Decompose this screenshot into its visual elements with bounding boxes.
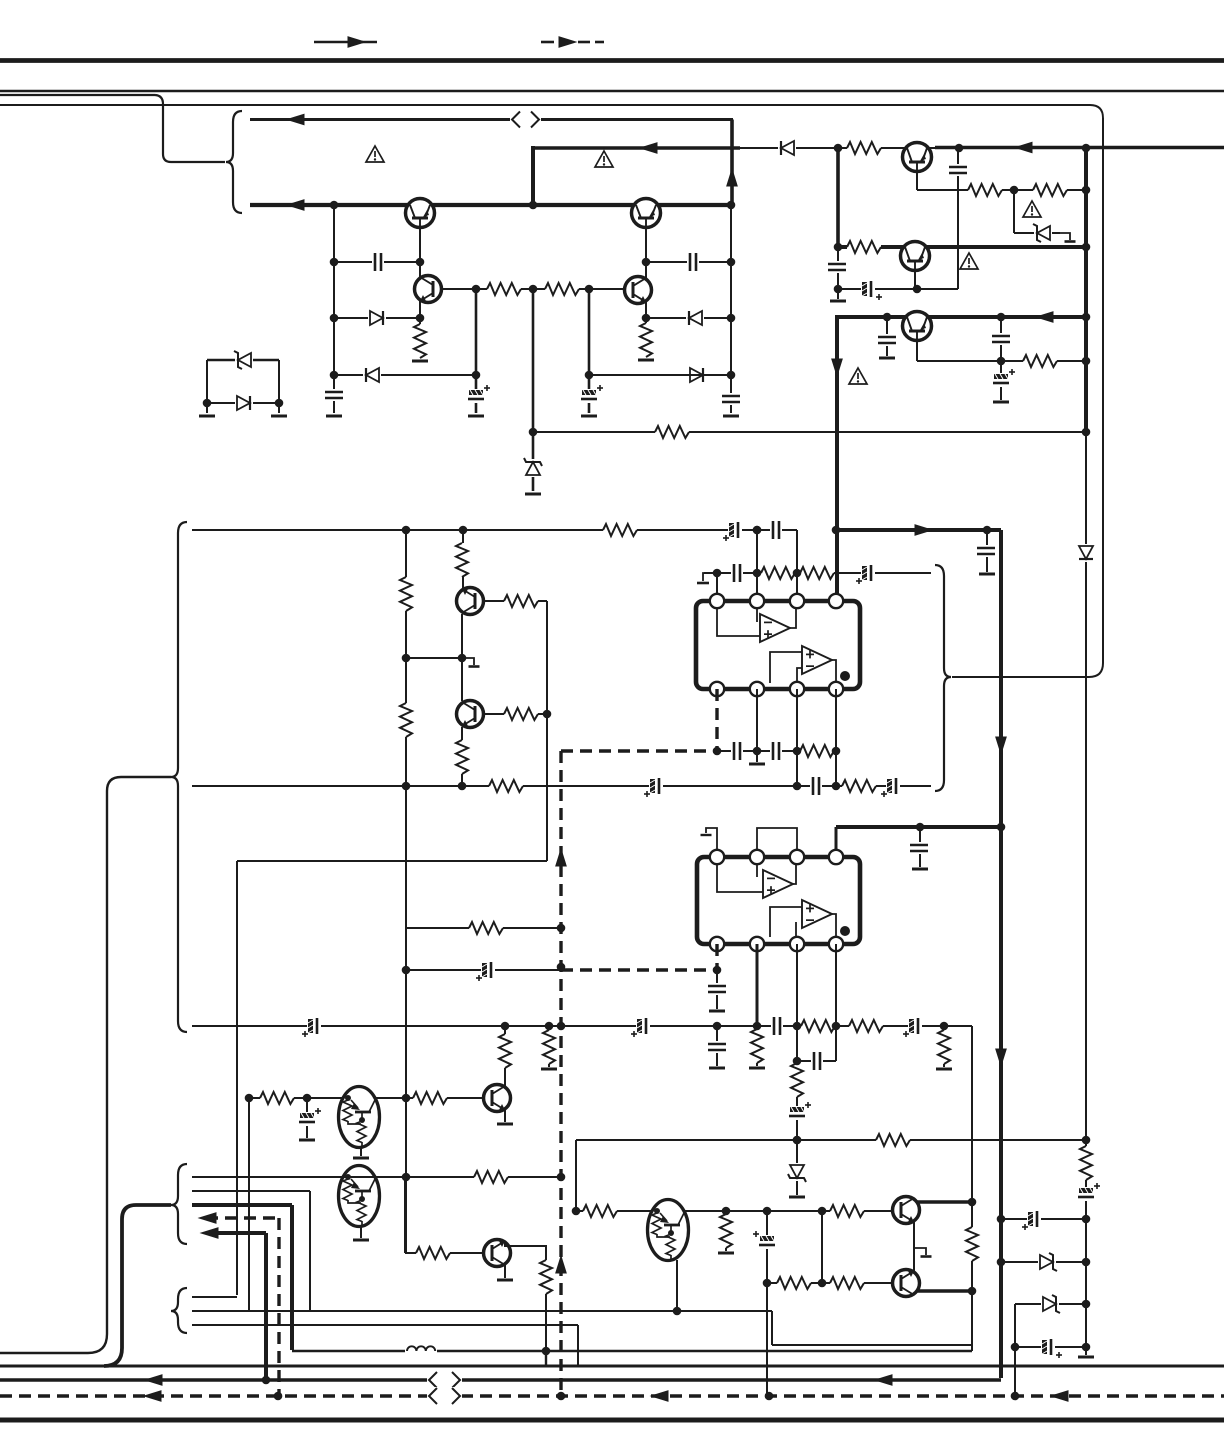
resistor R37 xyxy=(583,1204,617,1218)
wire electro at bus right xyxy=(1015,1346,1017,1348)
wire Q1 emitter chain xyxy=(419,219,421,358)
diode D8 xyxy=(778,139,796,157)
wire emitter row Q5 xyxy=(917,171,1086,190)
junction dots cluster 8 xyxy=(916,823,1091,1352)
wire base resistor row xyxy=(441,288,625,290)
brace B5 lower left xyxy=(171,1288,187,1333)
warning symbol 5 xyxy=(849,368,867,384)
ground U xyxy=(299,1139,315,1142)
arrow right on power row xyxy=(915,524,934,536)
U2 pin 1 xyxy=(710,850,724,864)
wire top right feed xyxy=(533,146,1224,150)
wire ecap drop AB xyxy=(766,1211,768,1396)
wire pin drop thick xyxy=(756,944,759,1026)
ground O xyxy=(749,763,765,766)
wire bottom border bus xyxy=(0,1418,1224,1423)
brace B2 long left xyxy=(171,522,187,1032)
transistor Q5 xyxy=(903,143,932,172)
arrow on feed at Q2 box xyxy=(639,142,658,154)
electrolytic C3 xyxy=(468,385,490,403)
resistor R43 xyxy=(1079,1146,1093,1180)
U1 pin 1 xyxy=(710,594,724,608)
U1 pin 8 xyxy=(710,682,724,696)
wire Q9 base row xyxy=(483,713,547,715)
wire cap chain column xyxy=(1000,317,1002,400)
U2 pin 4 xyxy=(829,850,843,864)
dashed bus line C xyxy=(0,1394,1224,1397)
warning symbol 1 xyxy=(366,146,384,162)
wire Q15 emitter xyxy=(504,1265,506,1278)
resistor R38 xyxy=(719,1214,733,1248)
wire divider column xyxy=(405,530,407,1253)
electrolytic C13 xyxy=(723,522,742,541)
arrow up on corner wire xyxy=(726,168,738,187)
resistor R14 xyxy=(399,577,413,611)
wire diode row left lower xyxy=(334,374,476,376)
wire right main vertical xyxy=(1084,147,1088,1355)
ground hook L xyxy=(462,658,480,667)
wire bus line B xyxy=(0,1378,1001,1382)
wire ecap drop U xyxy=(306,1098,308,1138)
transistor Q3 xyxy=(415,276,442,303)
wire Q12 collector xyxy=(917,1200,972,1204)
ground N xyxy=(979,573,995,576)
diode D4 xyxy=(686,309,704,327)
wire long row upper xyxy=(192,529,797,531)
U2 internal wiring xyxy=(717,864,836,937)
wire thick stub down from rail xyxy=(531,146,535,205)
resistor R10 xyxy=(1023,354,1057,368)
resistor R5 xyxy=(655,425,689,439)
wire mid gnd row xyxy=(406,657,462,659)
wire emitter return row xyxy=(772,1311,972,1345)
wire third thick rail xyxy=(837,315,1086,319)
resistor R36 xyxy=(876,1133,910,1147)
capacitor C7 xyxy=(828,261,846,273)
transistor Q9 xyxy=(457,701,484,728)
transistor Q11 xyxy=(484,1085,511,1112)
resistor R39 xyxy=(830,1204,864,1218)
arrow bus C 2 xyxy=(650,1390,669,1402)
wire Q12 emitter chain xyxy=(913,1222,915,1271)
U1 pin 7 xyxy=(750,682,764,696)
break marks bus C xyxy=(427,1387,462,1405)
wire from brace to node xyxy=(952,676,1089,678)
wire long row third xyxy=(192,1025,972,1027)
power transistor Q10 xyxy=(339,1087,380,1148)
electrolytic C24 xyxy=(302,1018,321,1037)
arrow down right col 1 xyxy=(995,737,1007,756)
ground D xyxy=(581,415,597,418)
resistor R25 xyxy=(750,1029,764,1063)
wire res drop AA xyxy=(725,1211,727,1251)
ground Q4 resistor xyxy=(638,359,654,362)
wire Q16 emitter xyxy=(676,1260,678,1311)
op-amp A1 xyxy=(760,614,790,642)
wire thick power row 2 xyxy=(836,827,1001,857)
wire Q11 collector drop xyxy=(504,1026,506,1086)
wire long row lower xyxy=(192,785,931,787)
wire mid box top row xyxy=(576,1140,1086,1211)
zener D3 xyxy=(524,458,542,477)
U1 pin 2 xyxy=(750,594,764,608)
resistor R12 xyxy=(489,779,523,793)
resistor R6 xyxy=(847,141,881,155)
wire pin feeds IC1 xyxy=(717,530,797,601)
ground Z xyxy=(789,1196,805,1199)
wire electrolytic drop C xyxy=(475,289,478,413)
U1 marker blob xyxy=(840,671,850,681)
U2 pin 3 xyxy=(790,850,804,864)
junction dots buses xyxy=(262,1347,1020,1401)
U1 pin 3 xyxy=(790,594,804,608)
electrolytic C8 xyxy=(861,281,882,300)
electrolytic C12 xyxy=(993,369,1015,387)
wire row1 lower xyxy=(192,1176,561,1178)
wire Q13 emitter xyxy=(917,1289,972,1293)
wire drop columns to buses xyxy=(545,1351,547,1366)
wire cap drop Q xyxy=(716,1026,718,1066)
wire left drop column xyxy=(236,861,238,1295)
wire Q14 emitter xyxy=(360,1226,362,1238)
wire Q10 emitter xyxy=(360,1147,362,1156)
ground Y xyxy=(497,1279,513,1282)
transistor Q1 xyxy=(406,199,435,228)
resistor R29 xyxy=(498,1034,512,1068)
ground E xyxy=(723,415,739,418)
ground T xyxy=(541,1068,557,1071)
wire Q11 emitter xyxy=(504,1110,506,1122)
U2 pin 8 xyxy=(710,937,724,951)
ground H xyxy=(830,300,846,303)
wire power cap drop xyxy=(919,827,921,867)
wire second top rail xyxy=(0,90,1224,92)
dashed row4 xyxy=(206,1218,279,1396)
wire IC2 top loop xyxy=(757,828,797,857)
dashed wire main vertical xyxy=(559,751,562,1396)
wire thick VCC drop IC1 xyxy=(835,530,839,601)
resistor R8 xyxy=(1033,183,1067,197)
wire link col AB xyxy=(821,1211,823,1283)
wire coil row xyxy=(292,1350,972,1352)
capacitor C6 xyxy=(722,393,740,405)
resistor R16 xyxy=(455,543,469,577)
wire node column A xyxy=(333,205,335,413)
wire row7 xyxy=(192,1310,772,1312)
diode D2 xyxy=(363,366,381,384)
capacitor C23 xyxy=(708,983,726,995)
power transistor Q14 xyxy=(339,1166,380,1227)
wire Q7 emitter row xyxy=(917,340,1086,361)
wire mid feedback row xyxy=(533,431,1086,433)
junction dots snubber xyxy=(203,399,284,408)
wire res drop R xyxy=(756,1026,758,1066)
transistor Q13 xyxy=(893,1270,920,1297)
wire top border bus xyxy=(0,58,1224,63)
U1 pin 4 xyxy=(829,594,843,608)
arrow dashed row4 xyxy=(198,1212,217,1224)
wire row Q10 xyxy=(249,1097,484,1099)
arrow down right col 2 xyxy=(995,1049,1007,1068)
resistor R11 xyxy=(603,523,637,537)
wire corner to right col xyxy=(971,1026,973,1351)
wire cap column G xyxy=(957,148,959,289)
resistor R15 xyxy=(399,703,413,737)
transistor Q2 xyxy=(632,199,661,228)
transistor Q7 xyxy=(903,312,932,341)
wire diode row left xyxy=(334,317,420,319)
electrolytic C36 xyxy=(1022,1211,1041,1230)
dashed wire to IC1 xyxy=(561,689,717,751)
resistor R33 xyxy=(474,1170,508,1184)
legend dashed arrow xyxy=(541,36,604,48)
capacitor C22 xyxy=(770,742,782,760)
ground R xyxy=(749,1067,765,1070)
ground V xyxy=(353,1157,369,1160)
wire pin drop 6 xyxy=(796,944,798,1140)
wire horizontal link xyxy=(237,860,547,862)
brace B3 right xyxy=(935,565,951,791)
resistor R26 xyxy=(790,1063,804,1097)
ground P xyxy=(709,1010,725,1013)
capacitor C9 xyxy=(949,164,967,176)
transistor Q8 xyxy=(457,588,484,615)
diode D1 xyxy=(368,309,386,327)
resistor R19 xyxy=(504,707,538,721)
resistor R22 xyxy=(800,744,834,758)
wire row right 3 xyxy=(1015,1304,1086,1396)
resistor R31 xyxy=(260,1091,294,1105)
arrow on upper line xyxy=(286,114,305,126)
electrolytic C37 xyxy=(1041,1339,1062,1358)
resistor R2 xyxy=(545,282,579,296)
electrolytic C19 xyxy=(856,565,875,584)
ground hook AB xyxy=(914,1248,932,1257)
resistor R28 xyxy=(542,1030,556,1064)
zener D11 xyxy=(788,1163,806,1182)
wire right column down xyxy=(546,601,548,861)
op-amp IC U1 xyxy=(696,601,860,689)
capacitor C5 xyxy=(687,253,699,271)
resistor R13 xyxy=(842,779,876,793)
ground J xyxy=(879,357,895,360)
junction dots cluster 5 xyxy=(501,823,1006,1145)
wire Q2 emitter chain xyxy=(645,219,647,357)
resistor R23 xyxy=(801,1019,835,1033)
U2 marker blob xyxy=(840,926,850,936)
U2 pin 6 xyxy=(790,937,804,951)
dashed wire to IC2 xyxy=(561,944,717,970)
wire thick row5 xyxy=(207,1233,266,1380)
capacitor C34 xyxy=(910,842,928,854)
junction dots cluster 1 xyxy=(330,201,736,437)
ground X xyxy=(353,1239,369,1242)
ground G xyxy=(271,415,287,418)
wire diode row right lower xyxy=(589,374,731,376)
wire diode row right xyxy=(646,317,731,319)
wire pin drop 5 xyxy=(835,944,837,1061)
wire IC2 gnd hook xyxy=(701,828,718,857)
op-amp A2 xyxy=(802,646,832,674)
resistor R4 xyxy=(639,323,653,357)
wire cap row right xyxy=(646,261,731,263)
U2 pin 5 xyxy=(829,937,843,951)
wire bottom left thin hook xyxy=(0,777,171,1353)
transistor Q12 xyxy=(893,1197,920,1224)
brace net group top-left xyxy=(226,111,242,213)
zener D13 xyxy=(1041,1295,1060,1313)
wire bottom left thick hook xyxy=(104,1205,171,1366)
ground AA xyxy=(718,1252,734,1255)
capacitor C16 xyxy=(810,777,822,795)
wire res drop S xyxy=(943,1026,945,1067)
arrow bus C 3 xyxy=(1050,1390,1069,1402)
op-amp A3 xyxy=(763,870,793,898)
wire thick drop G xyxy=(835,315,839,530)
resistor R40 xyxy=(777,1276,811,1290)
U2 pin 2 xyxy=(750,850,764,864)
diode D7 xyxy=(235,394,253,412)
wire row right 4 xyxy=(1015,1346,1086,1348)
electrolytic C17 xyxy=(881,778,900,797)
resistor R35 xyxy=(539,1260,553,1294)
zener D9 xyxy=(1033,224,1052,242)
electrolytic C25 xyxy=(631,1018,650,1037)
ground F xyxy=(199,415,215,418)
warning symbol 4 xyxy=(960,253,978,269)
transistor Q15 xyxy=(484,1240,511,1267)
transistor Q6 xyxy=(901,242,930,271)
wire bus line A xyxy=(0,1365,1224,1368)
wire cap drop to node xyxy=(837,247,839,299)
inductor L1 xyxy=(405,1343,437,1353)
wire cap drop P xyxy=(716,970,718,1009)
capacitor C1 xyxy=(325,389,343,401)
junction dots cluster 7 xyxy=(572,1136,1091,1296)
resistor R21 xyxy=(800,566,834,580)
electrolytic C29 xyxy=(789,1102,811,1120)
resistor R1 xyxy=(487,282,521,296)
wire snubber box xyxy=(207,360,279,413)
diode D5 xyxy=(688,366,706,384)
resistor R9 xyxy=(847,240,881,254)
arrow down on drop G xyxy=(831,359,843,378)
wire row right 1 xyxy=(1001,1218,1086,1220)
wire Q15 base chain xyxy=(405,1177,483,1253)
wire row6 xyxy=(192,1296,237,1298)
junction dots cluster 4 xyxy=(713,526,992,756)
capacitor C21 xyxy=(731,742,743,760)
wire thick drop F xyxy=(836,148,840,247)
wire below IC1 row xyxy=(717,750,836,752)
resistor R18 xyxy=(504,594,538,608)
ground A xyxy=(326,415,342,418)
arrow thick row5 xyxy=(200,1227,219,1239)
wire emitter link row xyxy=(838,270,958,289)
resistor R7 xyxy=(968,183,1002,197)
ground K xyxy=(993,401,1009,404)
U1 pin 6 xyxy=(790,682,804,696)
resistor R3 xyxy=(413,324,427,358)
wire cap drop N xyxy=(986,530,988,572)
wire corner down to Q2 rail xyxy=(730,120,734,206)
wire pin drops IC1 xyxy=(757,689,836,786)
warning symbol 2 xyxy=(595,151,613,167)
wire row Q12 xyxy=(576,1210,893,1212)
wire res drop T xyxy=(548,1026,550,1067)
junction dots cluster 2 xyxy=(834,144,1091,437)
op-amp A4 xyxy=(802,900,832,928)
capacitor C20 xyxy=(977,545,995,557)
arrow bus C 1 xyxy=(143,1390,162,1402)
resistor R34 xyxy=(416,1246,450,1260)
wire row right 2 xyxy=(1001,1261,1086,1263)
wire third top rail xyxy=(0,105,1103,118)
ground Q xyxy=(709,1067,725,1070)
wire signal line upper xyxy=(250,118,733,121)
resistor R32 xyxy=(413,1091,447,1105)
wire main thick rail xyxy=(250,203,733,207)
resistor R24 xyxy=(849,1019,883,1033)
wire Q8 base row xyxy=(483,600,547,602)
ground hook I xyxy=(1060,233,1076,242)
wire cap link row xyxy=(797,1060,836,1062)
resistor R20 xyxy=(761,566,795,580)
electrolytic C35 xyxy=(1078,1183,1100,1201)
resistor R27 xyxy=(937,1030,951,1064)
resistor R30 xyxy=(469,921,503,935)
ground B xyxy=(525,493,541,496)
arrow bus B 1 xyxy=(144,1374,163,1386)
capacitor C18 xyxy=(731,564,743,582)
wire cap row left xyxy=(334,261,420,263)
wire thick row3 xyxy=(192,1205,292,1350)
wire second thick rail xyxy=(838,245,1086,249)
ground AD xyxy=(1078,1356,1094,1359)
resistor R17 xyxy=(455,740,469,774)
break marks upper line xyxy=(510,111,541,129)
wire row to dashed 1 xyxy=(406,927,561,929)
power transistor Q16 xyxy=(648,1200,689,1261)
capacitor C11 xyxy=(992,333,1010,345)
capacitor C2 xyxy=(372,253,384,271)
transistor Q4 xyxy=(625,277,652,304)
arrow up dashed 1 xyxy=(555,848,567,867)
electrolytic C31 xyxy=(476,962,495,981)
electrolytic C27 xyxy=(903,1018,922,1037)
capacitor C28 xyxy=(708,1041,726,1053)
wire cap drop H xyxy=(886,317,888,356)
wire column B divider xyxy=(532,289,535,491)
wire node column E xyxy=(730,205,732,413)
electrolytic C15 xyxy=(644,778,663,797)
wire thick top power row xyxy=(837,528,1001,532)
electrolytic C33 xyxy=(753,1231,775,1249)
resistor R42 xyxy=(965,1227,979,1261)
wire row to dashed 2 xyxy=(406,969,561,971)
U2 pin 7 xyxy=(750,937,764,951)
junction dots cluster 3 xyxy=(402,526,841,1182)
capacitor C10 xyxy=(878,334,896,346)
wire zener drop Z xyxy=(796,1140,798,1195)
capacitor C26 xyxy=(771,1017,783,1035)
arrow on right feed xyxy=(1014,142,1033,154)
wire row8 xyxy=(192,1325,578,1366)
zener D6 xyxy=(234,351,253,369)
U1 internal wiring xyxy=(717,607,836,683)
break marks bus B xyxy=(427,1371,462,1389)
ground AC xyxy=(912,868,928,871)
